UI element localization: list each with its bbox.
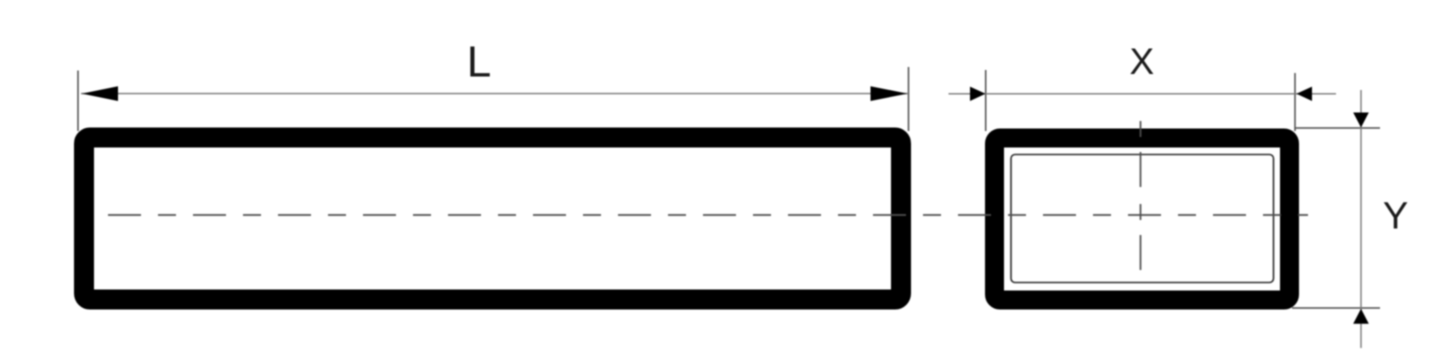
arrowhead Y top: [1353, 113, 1369, 128]
arrowhead Y bottom: [1353, 309, 1369, 324]
extension line left of L: [77, 71, 79, 132]
extension line top of Y: [1295, 127, 1380, 129]
arrowhead X right: [1297, 87, 1313, 101]
tube body side view: [84, 138, 901, 300]
extension line right of X: [1294, 73, 1296, 131]
extension line left of X: [985, 70, 987, 131]
vertical centerline: [1140, 121, 1142, 272]
svg-text:X: X: [1129, 41, 1154, 82]
arrowhead L right: [871, 86, 908, 101]
extension line bottom of Y: [1292, 307, 1380, 309]
cross-section inner bore: [1011, 155, 1274, 283]
arrowhead X left: [970, 87, 986, 101]
dimension line L: [81, 93, 908, 95]
svg-text:Y: Y: [1383, 196, 1408, 238]
cross-section outer wall: [995, 138, 1290, 300]
dimension line X with outside tails: [949, 93, 1337, 95]
extension line right of L: [908, 67, 910, 131]
horizontal centerline: [108, 214, 1308, 216]
svg-text:L: L: [467, 38, 491, 87]
dimension line Y with outside tails: [1360, 90, 1362, 348]
arrowhead L left: [82, 86, 118, 101]
